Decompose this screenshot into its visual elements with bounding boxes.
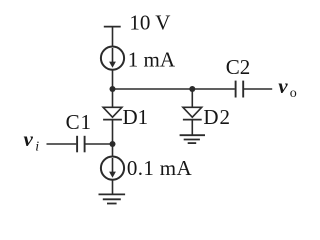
svg-text:C1: C1 [66,110,92,134]
wire node A to C2 (horizontal rail) [113,88,235,90]
svg-text:10 V: 10 V [129,10,170,34]
current source I2 [101,157,124,180]
label C2 [226,55,251,79]
capacitor C2 [236,81,244,98]
svg-text:v: v [278,74,288,98]
ground (under D2) [180,135,205,143]
diode D2 [183,107,202,119]
node C junction (D2 tap) [189,86,195,92]
svg-text:D1: D1 [123,105,149,129]
label C1 [66,110,92,134]
wire node C down to D2 [191,89,193,107]
svg-text:o: o [290,86,297,101]
capacitor C1 [77,136,85,153]
label D1 [123,105,149,129]
wire node B to I2 [112,144,114,157]
wire vi to C1 [47,143,77,145]
diode D1 [103,107,122,119]
label vi [24,127,40,155]
svg-text:v: v [24,127,34,151]
label 0.1 mA [127,156,193,180]
wire I1 to node A [112,69,114,89]
label vo [278,74,297,101]
svg-text:i: i [35,140,39,155]
node B junction [110,141,116,147]
label 1 mA [128,48,176,72]
label 10 V [129,10,170,34]
wire D2 to ground [191,120,193,136]
supply terminal bar (+10V) [104,26,121,28]
current source I1 [101,47,124,70]
wire C2 to vo [244,88,272,90]
ground (main) [99,194,126,203]
node A junction [110,86,116,92]
wire D1 to node B [112,120,114,144]
svg-text:1 mA: 1 mA [128,48,176,72]
label D2 [203,105,230,129]
svg-text:C2: C2 [226,55,251,79]
svg-text:0.1 mA: 0.1 mA [127,156,193,180]
wire supply to I1 [112,27,114,47]
svg-text:D2: D2 [203,105,230,129]
wire I2 to ground [112,179,114,194]
wire C1 to node B [85,143,112,145]
wire node A down to D1 [112,89,114,107]
